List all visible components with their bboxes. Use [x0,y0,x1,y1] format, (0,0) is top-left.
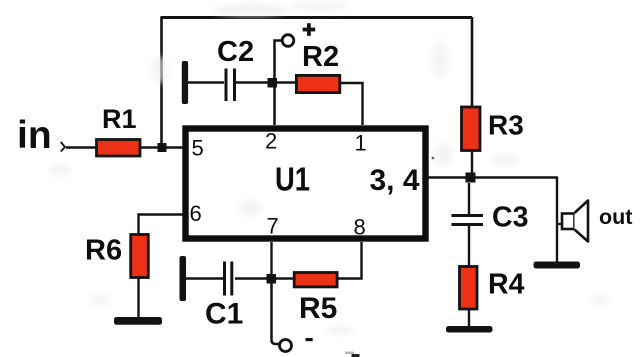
wire C2 ground bar to C2 [185,81,224,83]
node output junction [466,173,476,183]
svg-text:U1: U1 [275,161,310,198]
wire C1 ground bar to C1 [185,277,224,279]
wire C2 to node [235,81,296,83]
svg-text:C3: C3 [492,202,528,234]
wire pin 6 to R6 [139,215,184,236]
stray mark bottom center [345,352,360,357]
svg-text:2: 2 [265,129,277,154]
stray speck right of IC [432,157,435,160]
wire speaker branch down [556,177,558,263]
wire + terminal down through node to pin 2 [275,41,282,126]
resistor R4 [460,267,478,310]
resistor R1 [97,140,141,157]
wire R4 to ground [468,309,470,327]
wire pin 7 down to node [270,242,272,279]
capacitor C1 [225,262,232,296]
svg-text:5: 5 [192,136,204,161]
wire input to R1 [66,146,96,148]
node input junction [158,143,167,152]
resistor R2 [296,75,339,92]
svg-text:R4: R4 [488,269,525,301]
wire top supply rail [161,16,473,19]
wire output node down to C3 [468,183,470,215]
wire left vertical from input node to top rail [160,17,163,146]
terminal + circle [282,35,294,47]
ground R4 [446,326,493,333]
svg-text:C1: C1 [205,298,243,331]
svg-text:R6: R6 [85,235,122,267]
ground R6 [114,317,162,325]
wire C1 to node [235,277,294,279]
svg-text:3, 4: 3, 4 [370,164,420,197]
svg-text:R5: R5 [299,292,337,325]
wire R5 to pin 8 [336,242,362,279]
capacitor C2 [226,69,235,102]
svg-text:R1: R1 [102,104,137,134]
input arrow [61,142,65,152]
svg-text:in: in [17,114,52,157]
wire C3 to R4 [468,225,470,266]
svg-text:R3: R3 [488,110,524,141]
label - [306,338,313,341]
svg-text:C2: C2 [217,36,254,68]
resistor R6 [131,235,149,278]
svg-text:out: out [599,205,632,229]
node C1/R5/- junction [267,274,277,284]
svg-text:R2: R2 [302,41,339,73]
wire R1 to pin 5 [141,146,183,148]
wire pins 3,4 to speaker branch [426,176,557,178]
ground bar for C1 [180,256,187,301]
svg-text:7: 7 [267,214,279,239]
ground bar for C2 [182,61,188,104]
resistor R3 [462,107,481,151]
wire R6 to ground [137,278,139,318]
wire R2 to pin 1 [340,83,363,125]
wire R3 to output node [471,150,473,178]
ground speaker [534,262,581,269]
svg-text:8: 8 [354,215,366,240]
node C2/R2/+ junction [268,78,278,88]
wire node down to - terminal [272,283,280,344]
resistor R5 [294,273,337,287]
svg-text:1: 1 [355,131,367,156]
speaker SPK [557,201,588,242]
capacitor C3 [452,216,484,225]
wire right vertical from top rail to R3 [471,17,474,107]
svg-text:6: 6 [190,201,202,226]
label + [303,23,316,36]
op-amp U1 IC box [186,129,426,239]
terminal - circle [280,340,292,352]
